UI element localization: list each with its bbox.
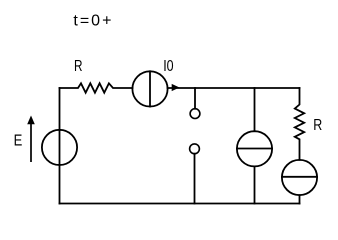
svg-text:E: E: [14, 133, 23, 150]
svg-text:R: R: [313, 117, 322, 134]
svg-text:t=0+: t=0+: [73, 13, 113, 30]
svg-text:R: R: [74, 58, 83, 75]
svg-text:I0: I0: [163, 58, 173, 75]
